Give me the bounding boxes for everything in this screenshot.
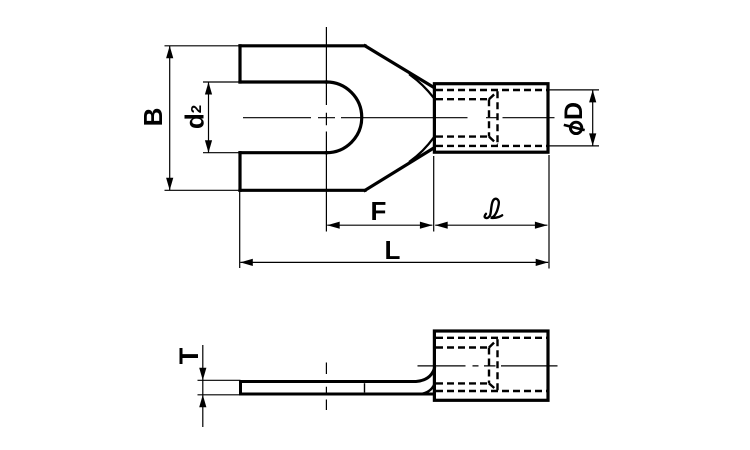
T dimension [198, 345, 241, 427]
phiD dimension line [592, 90, 594, 146]
crimp barrel (side view) [434, 331, 548, 400]
barrel-left extension line [433, 156, 435, 232]
fork-left extension line [239, 192, 241, 268]
slot end semicircle [326, 82, 361, 153]
wire bore top [436, 98, 489, 100]
label phiD [560, 102, 588, 134]
T arrow shaft top [202, 345, 204, 380]
funnel small circle [488, 99, 490, 136]
hidden bore lines (top view) [436, 90, 547, 146]
T extension top [198, 379, 241, 381]
L dimension line [240, 261, 548, 263]
insulation bore top [436, 89, 547, 91]
horizontal centerline [418, 365, 558, 367]
horizontal centerline [243, 117, 555, 119]
T dimension line short [202, 380, 204, 395]
svg-text:D: D [560, 102, 588, 120]
crimp barrel (top view) [434, 84, 548, 153]
fork terminal outline (top view) [240, 46, 434, 191]
centerlines (top view) [243, 27, 555, 232]
left edge lower prong [238, 153, 241, 191]
B arrows [166, 46, 173, 59]
bottom edge [240, 189, 365, 192]
F dimension line [327, 224, 432, 226]
phiD extension bottom [550, 145, 600, 147]
B dimension line [169, 46, 171, 191]
funnel large circle [496, 339, 498, 391]
T arrowhead top [199, 368, 206, 381]
T arrow shaft bottom [202, 395, 204, 427]
slot end edge seen in side view [364, 383, 366, 392]
wire bore bottom [436, 382, 489, 384]
strip bottom edge [241, 393, 435, 396]
vertical centerline [325, 27, 327, 232]
d2 dimension line [208, 82, 210, 153]
B extension top [165, 45, 239, 47]
funnel large circle [496, 91, 498, 144]
svg-text:B: B [138, 108, 168, 127]
funnel cone upper [489, 339, 498, 347]
barrel-right extension line [548, 155, 550, 269]
insulation bore top [436, 337, 547, 339]
centerlines (side view) [326, 363, 557, 411]
hidden bore lines (side view) [436, 338, 547, 391]
vertical centerline [325, 363, 327, 411]
top taper edge [365, 46, 434, 88]
d2 extension bottom [203, 152, 239, 154]
svg-text:T: T [174, 347, 204, 364]
top transition wing [410, 75, 434, 98]
bottom taper edge [365, 148, 434, 191]
bottom transition wing [410, 138, 434, 162]
funnel cone upper [489, 91, 498, 99]
funnel cone lower [489, 383, 498, 390]
wire bore bottom [436, 135, 489, 137]
funnel small circle [488, 348, 490, 384]
left edge upper prong [238, 46, 241, 82]
phiD extension top [550, 89, 600, 91]
L arrows [240, 259, 253, 266]
svg-text:F: F [371, 196, 387, 226]
bottom ramp curve [420, 384, 434, 394]
label l (script ell) [485, 199, 503, 218]
extension and dimension lines (thin) [165, 46, 600, 269]
insulation bore bottom [436, 145, 547, 147]
strip left cap [239, 382, 242, 395]
tongue strip (side view) [241, 369, 435, 395]
F arrows [327, 222, 340, 229]
phiD arrows [589, 90, 596, 103]
T arrowhead bottom [199, 395, 206, 408]
d2 extension top [203, 81, 239, 83]
T extension bottom [198, 394, 241, 396]
l arrows [435, 222, 448, 229]
insulation bore bottom [436, 390, 547, 392]
B extension bottom [165, 189, 239, 191]
d2 arrows [205, 82, 212, 95]
slot lower edge [240, 151, 326, 154]
arrowheads top view [166, 46, 596, 266]
funnel cone lower [489, 137, 498, 145]
strip top edge with ramp [241, 369, 435, 382]
wire bore top [436, 346, 489, 348]
l dimension line [435, 224, 547, 226]
top edge [240, 44, 365, 47]
svg-text:L: L [385, 235, 401, 265]
slot upper edge [240, 80, 326, 83]
